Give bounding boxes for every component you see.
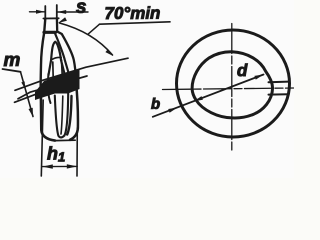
dimension h1: left arrowhead	[42, 164, 53, 168]
washer side view: inner fold edge right	[55, 33, 68, 72]
washer side view: lower cut inner thick edge	[67, 96, 71, 135]
angle 70 min: arc	[60, 23, 113, 55]
svg-text:d: d	[237, 61, 248, 80]
split mark lower line	[269, 93, 289, 95]
angle 70 min: arc lower arrowhead	[105, 49, 113, 56]
svg-text:b: b	[151, 96, 160, 113]
dimension s: right extension line	[56, 5, 58, 18]
vertical centerline	[231, 24, 233, 153]
dimension m: mid arrowhead	[21, 81, 25, 88]
svg-text:70°min: 70°min	[104, 4, 160, 23]
washer side view: outer left edge lower	[41, 96, 55, 141]
d upper arrowhead at inner circle	[254, 75, 263, 80]
angle 70 min: leader	[88, 24, 100, 34]
dimension h1: left extension line	[41, 100, 43, 176]
washer side view: inner hole lower left edge	[55, 96, 65, 138]
washer side view: top edge	[43, 17, 58, 19]
washer plan view: outer circle	[177, 30, 290, 137]
dimension m: leader	[21, 72, 34, 117]
split cut line D3	[15, 86, 79, 102]
washer side view: inner hole lower right edge	[64, 93, 68, 136]
split cut line D2	[18, 76, 87, 99]
dimension h1: dim line	[42, 165, 77, 167]
diameter d / width b dim line	[153, 75, 264, 117]
svg-text:s: s	[76, 0, 87, 18]
dimension h1: right extension line	[76, 128, 78, 176]
dimension s: right arrowhead	[57, 10, 66, 14]
angle 70 min: shelf	[100, 22, 171, 24]
dimension s: left arrowhead	[36, 10, 45, 14]
dimension s: left dim line	[30, 11, 45, 13]
washer side view: inner hole near edge right	[62, 60, 63, 87]
split cut face fill	[35, 69, 80, 100]
horizontal centerline	[163, 88, 294, 90]
washer side view: inner hole left edge through split	[48, 74, 51, 103]
dimension m: shelf	[3, 69, 21, 72]
split mark upper line	[269, 81, 289, 84]
washer side view: inner hole lower near edge	[61, 96, 63, 134]
washer side view: outer bottom edge	[55, 139, 75, 141]
svg-text:m: m	[3, 50, 20, 71]
angle 70 min: arc upper arrowhead	[58, 17, 67, 23]
b arrowhead at outer circle	[168, 108, 177, 113]
washer plan view: inner circle	[192, 52, 273, 118]
washer side view: inner hole near edge left	[52, 62, 55, 90]
washer side view: inner hole far-edge crossbar	[52, 57, 61, 59]
washer side view: outer right edge upper	[57, 18, 76, 79]
washer side view: outer right edge lower	[70, 81, 78, 140]
washer side view: shoulder joint	[44, 31, 56, 34]
washer side view: inner hole upper arch	[49, 42, 65, 75]
dimension s: left extension line	[44, 6, 46, 19]
washer side view: outer left edge upper	[41, 19, 46, 95]
dimension s: right dim line	[57, 11, 88, 13]
dimension h1: right arrowhead	[67, 164, 78, 168]
d lower arrowhead at inner circle	[194, 96, 203, 101]
split cut line D1	[15, 58, 128, 90]
dimension m: end arrowhead	[29, 108, 34, 117]
